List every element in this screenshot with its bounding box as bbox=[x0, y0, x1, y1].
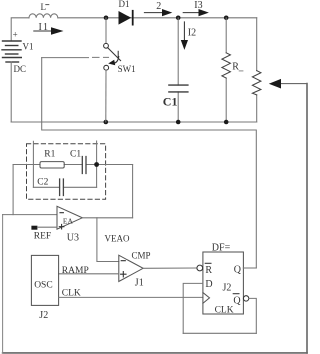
resistor R label bbox=[232, 62, 239, 73]
feedback wire bottom bbox=[183, 332, 256, 334]
D flip-flop DF box bbox=[203, 252, 244, 314]
diode D1 bbox=[119, 11, 132, 25]
DF label bbox=[212, 242, 231, 253]
Q label bbox=[234, 264, 242, 275]
CMP output wire bbox=[143, 267, 197, 269]
svg-text:C2: C2 bbox=[37, 177, 48, 187]
RAMP wire bbox=[59, 273, 119, 275]
CLK edge triangle bbox=[203, 293, 210, 304]
rail junction dot SW bbox=[104, 120, 109, 125]
svg-text:R: R bbox=[232, 62, 239, 73]
R label with overbar bbox=[205, 265, 212, 276]
capacitor C1 label bbox=[163, 95, 178, 109]
svg-text:DC: DC bbox=[14, 64, 27, 74]
node B dot bbox=[176, 15, 181, 20]
Qbar label with overbar bbox=[233, 296, 241, 307]
svg-text:CLK: CLK bbox=[62, 289, 81, 299]
svg-text:RAMP: RAMP bbox=[62, 266, 89, 276]
load resistor zigzag bbox=[252, 71, 261, 95]
switch SW1 top wire bbox=[105, 18, 107, 44]
rail junction dot R bbox=[224, 120, 229, 125]
capacitor C2 plates bbox=[60, 179, 64, 196]
svg-text:Q: Q bbox=[233, 296, 241, 307]
J2 label DF bbox=[223, 282, 232, 293]
capacitor C1 plates bbox=[169, 85, 188, 92]
CLK label bbox=[62, 289, 81, 299]
comp node dot bbox=[94, 162, 99, 167]
switch control wire bbox=[42, 57, 89, 59]
switch SW1 bottom contact bbox=[104, 65, 109, 70]
switch SW1 blade bbox=[108, 48, 121, 61]
rail junction dot C1 bbox=[176, 120, 181, 125]
svg-text:EA: EA bbox=[63, 217, 74, 226]
battery label V1 bbox=[23, 41, 34, 51]
CLK wire bbox=[59, 296, 203, 298]
EA output wire bbox=[82, 217, 132, 219]
capacitor C2 branch bbox=[33, 186, 96, 188]
comparator CMP J1 bbox=[119, 255, 143, 281]
svg-text:REF: REF bbox=[34, 231, 51, 241]
svg-text:J2: J2 bbox=[39, 310, 48, 321]
svg-text:V1: V1 bbox=[23, 41, 34, 51]
current arrow I2 bbox=[183, 22, 185, 41]
svg-text:CMP: CMP bbox=[132, 250, 151, 260]
CLK label DF bbox=[215, 306, 234, 316]
resistor R branch bbox=[225, 18, 227, 122]
svg-text:C1: C1 bbox=[70, 149, 81, 159]
svg-text:+: + bbox=[13, 30, 18, 40]
error amp feedback input wire bbox=[3, 214, 57, 216]
control rail wire bbox=[42, 58, 257, 268]
svg-text:R1: R1 bbox=[44, 149, 55, 159]
R input bubble bbox=[197, 265, 203, 271]
comp stub left bbox=[32, 141, 34, 187]
wire top rail bbox=[11, 18, 257, 41]
svg-text:SW1: SW1 bbox=[118, 64, 136, 74]
inductor L1 coil bbox=[29, 14, 58, 18]
op-amp EA U3 bbox=[57, 206, 82, 229]
frame bottom border bbox=[3, 352, 307, 354]
svg-text:OSC: OSC bbox=[34, 280, 52, 290]
svg-text:I3: I3 bbox=[194, 0, 202, 11]
comp feedback vertical bbox=[132, 165, 134, 218]
current arrow 2 bbox=[144, 12, 163, 14]
D input wire bbox=[183, 283, 203, 333]
svg-text:CLK: CLK bbox=[215, 306, 234, 316]
svg-text:2: 2 bbox=[156, 1, 161, 12]
svg-text:L: L bbox=[41, 2, 47, 12]
REF label bbox=[34, 231, 51, 241]
capacitor C1 comp plates bbox=[82, 157, 86, 174]
switch SW1 label bbox=[118, 64, 136, 74]
svg-text:DF=: DF= bbox=[212, 242, 231, 253]
RAMP label bbox=[62, 266, 89, 276]
capacitor C1 branch wire bbox=[177, 18, 179, 122]
switch SW1 bottom wire bbox=[105, 70, 107, 122]
node A dot bbox=[104, 15, 109, 20]
VEAO wire down bbox=[97, 218, 119, 262]
svg-text:I1: I1 bbox=[39, 22, 50, 33]
inductor label L bbox=[41, 2, 47, 12]
svg-text:U3: U3 bbox=[67, 232, 79, 243]
resistor R1 bbox=[40, 162, 64, 168]
battery label DC bbox=[14, 64, 27, 74]
Qbar feedback wire bbox=[249, 298, 256, 333]
battery V1 plates bbox=[2, 41, 21, 62]
svg-text:D: D bbox=[205, 279, 212, 290]
svg-text:VEAO: VEAO bbox=[105, 234, 130, 244]
comp input wire bbox=[13, 164, 133, 166]
svg-text:R: R bbox=[205, 265, 212, 276]
switch SW1 actuator arrow bbox=[114, 57, 119, 64]
OSC box J2 bbox=[31, 255, 58, 305]
comp stub right bbox=[96, 141, 98, 187]
svg-text:Q: Q bbox=[234, 264, 242, 275]
svg-text:J1: J1 bbox=[135, 278, 144, 289]
current arrow I3 bbox=[183, 12, 199, 14]
feedback wire left vertical bbox=[2, 215, 4, 353]
VEAO label bbox=[105, 234, 130, 244]
battery plus label bbox=[13, 30, 18, 40]
current arrow I1 bbox=[34, 30, 52, 32]
node C dot bbox=[224, 15, 229, 20]
Q output wire bbox=[243, 267, 256, 269]
svg-text:J2: J2 bbox=[223, 282, 232, 293]
compensation dashed box bbox=[27, 144, 106, 199]
resistor R zigzag bbox=[222, 53, 231, 78]
REF terminal square bbox=[31, 226, 37, 230]
D label bbox=[205, 279, 212, 290]
feedback wire right vertical bbox=[306, 84, 308, 353]
switch SW1 top contact bbox=[104, 43, 109, 48]
REF input wire bbox=[37, 226, 57, 228]
svg-text:D1: D1 bbox=[119, 0, 130, 9]
wire battery to ground rail bbox=[10, 62, 12, 122]
Qbar output bubble bbox=[243, 296, 248, 301]
load resistor branch right bbox=[256, 18, 258, 122]
ground rail wire bbox=[11, 121, 257, 123]
svg-text:C1: C1 bbox=[163, 95, 178, 109]
svg-text:I2: I2 bbox=[188, 28, 196, 39]
switch SW1 actuator tick bbox=[117, 51, 119, 58]
load arrow bbox=[280, 83, 307, 85]
comp connect vertical bbox=[12, 165, 14, 215]
